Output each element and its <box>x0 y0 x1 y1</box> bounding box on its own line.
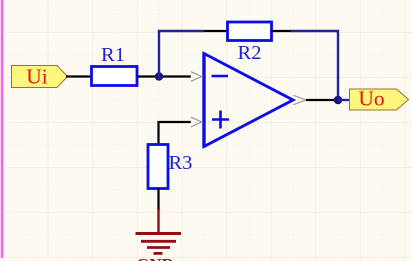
pin arrow inverting input <box>191 72 202 82</box>
wire node to port Uo <box>338 99 350 101</box>
svg-text:GND: GND <box>136 255 174 261</box>
wire R2 pin 2 <box>272 30 292 32</box>
svg-text:Ui: Ui <box>26 65 48 89</box>
wire R2 pin 1 <box>204 30 228 32</box>
port Uo <box>350 87 409 111</box>
op-amp U1 <box>204 53 293 148</box>
pin arrow non-inverting input <box>191 117 202 127</box>
svg-text:Uo: Uo <box>358 87 384 111</box>
wire R3 to ground <box>157 189 159 212</box>
ground <box>136 210 182 254</box>
junction node at inverting input <box>155 72 163 80</box>
svg-text:R1: R1 <box>101 44 125 66</box>
resistor R1 <box>92 44 138 86</box>
wire op-amp output to node <box>306 99 335 101</box>
resistor R2 <box>228 22 272 64</box>
wire R1 to inverting input <box>137 75 191 77</box>
port Ui <box>12 65 68 89</box>
svg-text:R3: R3 <box>169 152 193 174</box>
wire Ui to R1 <box>66 75 92 77</box>
wire feedback right (R2 down to output node) <box>291 31 338 97</box>
wire feedback left (junction up to R2) <box>159 31 204 79</box>
wire non-inverting input <box>159 122 191 145</box>
junction node at output <box>334 96 343 105</box>
resistor R3 <box>148 145 192 189</box>
pin arrow output <box>293 95 306 104</box>
svg-text:R2: R2 <box>238 42 262 64</box>
